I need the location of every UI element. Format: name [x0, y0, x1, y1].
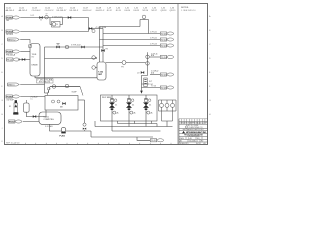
wire to OUT-5 — [150, 74, 160, 76]
package box PK-2 — [101, 95, 158, 121]
grid row letters left margin — [1, 15, 3, 143]
wire drop to L-R1 — [148, 20, 150, 34]
vessel T-102 — [97, 62, 106, 80]
off-page connector IN-7 — [6, 95, 19, 98]
wire bus b2 — [95, 126, 173, 128]
wire transfer line y62.5 — [106, 62, 146, 64]
svg-text:JK-12: JK-12 — [107, 10, 113, 12]
rotameter manifold — [159, 99, 177, 101]
svg-text:CD-106-X: CD-106-X — [32, 10, 42, 12]
wire L2 — [20, 31, 88, 33]
pump P-201 — [61, 127, 66, 132]
burner unit U2 — [126, 95, 136, 121]
svg-text:1. SEE DWG 10: 1. SEE DWG 10 — [181, 10, 196, 12]
label box on outlet line — [37, 79, 54, 83]
instrument PI-111 — [146, 62, 150, 66]
instrument FI-101 — [45, 15, 49, 19]
svg-text:2"-NG-1021: 2"-NG-1021 — [52, 16, 63, 18]
wire riser x84.5 — [84, 100, 86, 123]
wire CW supply into PK-1 — [20, 96, 45, 98]
svg-text:TO 23: TO 23 — [161, 45, 167, 47]
wire riser x147.5 — [147, 52, 149, 75]
svg-text:GH-111-X: GH-111-X — [96, 10, 105, 12]
svg-text:FW-201-A: FW-201-A — [6, 53, 15, 56]
svg-text:CD-107-X: CD-107-X — [45, 10, 55, 12]
off-page connector OUT-2 — [160, 38, 173, 41]
svg-text:VENT 12: VENT 12 — [8, 39, 16, 41]
wire link y28.5 — [89, 28, 104, 30]
svg-text:SUMP: SUMP — [72, 92, 78, 94]
svg-text:P-201: P-201 — [60, 136, 66, 138]
svg-text:TO 21: TO 21 — [161, 33, 167, 35]
wire L6 drain header — [20, 84, 44, 86]
wire header R1 — [103, 33, 160, 35]
svg-text:2"-CW-12: 2"-CW-12 — [151, 71, 158, 73]
svg-text:AB-105-X: AB-105-X — [19, 9, 28, 12]
svg-text:N2 SUP: N2 SUP — [6, 34, 14, 36]
burner unit U3 — [143, 95, 153, 121]
svg-text:2"-VT-11: 2"-VT-11 — [151, 53, 158, 55]
svg-text:NP-17: NP-17 — [152, 10, 159, 12]
wire vertical riser x44.5 — [44, 47, 46, 93]
instrument PI-104 — [142, 15, 146, 19]
wire bypass drops — [49, 18, 51, 25]
svg-text:G: G — [1, 100, 3, 102]
off-page connector OUT-5 — [160, 73, 173, 76]
instrument PI-102 — [92, 29, 95, 32]
filter F-201 — [14, 103, 18, 112]
wire riser to L2 — [88, 18, 90, 32]
revision ticks — [182, 119, 205, 124]
off-page connector IN-4 — [6, 50, 19, 53]
svg-text:EF-109-X: EF-109-X — [70, 10, 79, 12]
valve V103 — [89, 27, 92, 29]
svg-text:EF-108-XY: EF-108-XY — [57, 10, 68, 12]
svg-text:AB-104-X: AB-104-X — [6, 9, 15, 12]
off-page connector IN-2 — [6, 30, 19, 33]
svg-text:A1: A1 — [180, 139, 182, 142]
burner unit U1 — [109, 95, 119, 121]
wire L3 to vessel — [20, 39, 30, 41]
svg-text:TO 27: TO 27 — [151, 140, 157, 142]
svg-text:C-201: C-201 — [44, 116, 49, 118]
wire branch y84 — [142, 83, 150, 85]
svg-text:G: G — [209, 100, 211, 102]
svg-text:TO 22: TO 22 — [161, 39, 167, 41]
control valve CV-202 — [83, 123, 86, 126]
package box PK-1 — [45, 96, 78, 111]
valve cluster on riser — [141, 71, 144, 73]
svg-text:2"-FG-22: 2"-FG-22 — [150, 38, 157, 40]
svg-text:DRN 15: DRN 15 — [8, 84, 15, 86]
wire mid line y26.5 — [100, 26, 141, 28]
wire pump discharge — [66, 130, 91, 132]
svg-text:LM-14: LM-14 — [125, 10, 132, 12]
instrument FI-107 on line — [122, 61, 126, 65]
svg-text:J: J — [1, 128, 2, 130]
instrument LI-106 — [92, 66, 96, 70]
svg-text:FR 14: FR 14 — [7, 59, 12, 61]
wire header y58.5 — [45, 58, 98, 60]
svg-text:FROM 11: FROM 11 — [6, 31, 12, 33]
valve V101 — [39, 16, 42, 18]
wire inlet pill to compressor — [23, 121, 39, 123]
wire bus b2 drop left — [94, 121, 96, 127]
svg-text:TO 26: TO 26 — [161, 87, 167, 89]
pump symbol in H1 — [52, 23, 56, 27]
valve on vessel feed — [29, 45, 32, 48]
instrument PSV stem — [143, 18, 145, 21]
svg-text:JK-13: JK-13 — [116, 10, 122, 12]
svg-text:QR-18: QR-18 — [161, 10, 168, 12]
off-page connector OUT-6 — [160, 86, 173, 89]
instrument PI-110 — [146, 55, 150, 59]
wire L5 — [18, 59, 30, 61]
svg-text:SP: SP — [46, 14, 48, 16]
grid row letters right margin — [209, 15, 211, 116]
off-page connector OUT-1 — [160, 32, 173, 35]
svg-text:2"-FG-21: 2"-FG-21 — [150, 32, 157, 34]
vessel T-201 pot — [24, 103, 30, 112]
wire bus b1 — [118, 123, 158, 125]
valve wedge into package — [140, 91, 143, 94]
mitsubishi logo — [182, 131, 185, 133]
wire riser pipe B — [102, 29, 104, 63]
wire header R3 — [103, 45, 160, 47]
svg-text:TO 25: TO 25 — [161, 74, 167, 76]
valve V102 — [68, 16, 71, 18]
wire bus b4 — [91, 136, 153, 138]
valve V104 — [22, 58, 25, 60]
wire manifold drops — [161, 111, 163, 121]
off-page connector IN-6 flag — [8, 83, 20, 86]
control valve CV-101 — [56, 46, 59, 48]
svg-text:FROM 10: FROM 10 — [6, 17, 12, 19]
notes divider line — [177, 4, 179, 144]
wire to OUT-6 — [142, 87, 161, 89]
wire jog down — [142, 76, 148, 91]
svg-text:LM-15: LM-15 — [134, 10, 141, 12]
svg-text:GH-110-X: GH-110-X — [83, 10, 93, 12]
svg-text:NOTES:: NOTES: — [181, 7, 189, 9]
valve in PK-1 — [62, 102, 65, 104]
valve V-203 — [33, 115, 36, 117]
size cells row — [185, 137, 187, 140]
off-page connector IN-5 — [7, 58, 20, 61]
title block frame — [179, 119, 208, 145]
wire riser pipe A — [99, 40, 101, 63]
wire jog up — [139, 20, 141, 27]
svg-text:F1: F1 — [9, 106, 11, 108]
svg-text:R0: R0 — [201, 140, 203, 142]
svg-text:10-1043-01: 10-1043-01 — [189, 140, 198, 142]
svg-text:REF 10-2 P+ID: REF 10-2 P+ID — [6, 143, 20, 145]
compressor package C-201 — [39, 112, 61, 124]
svg-text:DRUM: DRUM — [32, 65, 38, 67]
header stream labels row — [6, 8, 177, 12]
grid column ticks bottom border — [15, 143, 171, 145]
instrument in PK-1 a — [52, 100, 55, 103]
svg-text:CW SUP: CW SUP — [6, 99, 14, 101]
number cells row — [187, 139, 189, 142]
svg-text:FROM 13: FROM 13 — [6, 51, 12, 53]
svg-text:TO 24: TO 24 — [161, 57, 167, 59]
instrument LG-202 — [65, 84, 69, 88]
instrument LI-105 — [92, 56, 96, 60]
svg-text:COMP PKG: COMP PKG — [44, 119, 55, 121]
border frame — [5, 4, 208, 145]
wire main feed L1 — [20, 17, 88, 19]
wire PK1 drop — [45, 110, 47, 117]
svg-text:2"-DR-1090-A1A: 2"-DR-1090-A1A — [37, 79, 53, 82]
instrument LG-201 — [52, 85, 56, 89]
svg-text:FROM 16: FROM 16 — [6, 96, 12, 98]
svg-text:1-021: 1-021 — [30, 15, 34, 17]
svg-text:FROM 17: FROM 17 — [9, 121, 15, 123]
wire to OUT-4 — [149, 56, 160, 58]
wire compressor drain to pump — [50, 124, 62, 131]
wire component line y47 — [45, 46, 104, 48]
wire to OUT-7 — [137, 137, 150, 140]
wire pot outlet — [26, 112, 46, 116]
valve V105 — [81, 46, 84, 48]
off-page connector IN-8 — [9, 120, 22, 123]
valve on riser B — [101, 49, 104, 51]
off-page connector OUT-7 — [150, 139, 163, 142]
off-page connector IN-1 — [6, 16, 19, 19]
svg-text:4"-VG-1050: 4"-VG-1050 — [96, 27, 107, 29]
off-page connector OUT-3 — [160, 44, 173, 47]
off-page connector IN-3 flag — [8, 38, 20, 41]
wire unit drops — [111, 121, 113, 131]
off-page connector OUT-4 — [160, 55, 173, 58]
svg-text:2"-FG-23: 2"-FG-23 — [150, 44, 157, 46]
wire b1 drop — [156, 124, 158, 127]
heater package box H1 — [52, 22, 61, 28]
svg-text:NP-16: NP-16 — [143, 10, 150, 12]
svg-text:3"-FW-1042: 3"-FW-1042 — [71, 45, 81, 47]
svg-text:0 ISSUE FOR APPROVAL AB CD EF: 0 ISSUE FOR APPROVAL AB CD EF — [179, 122, 207, 125]
svg-text:SH 1/1: SH 1/1 — [196, 143, 201, 145]
wire header R2 — [100, 39, 161, 41]
instrument TI-103 — [65, 45, 69, 49]
instrument in PK-1 b — [57, 100, 60, 103]
strainer on drop — [144, 78, 147, 87]
wire PK-1 to riser — [78, 99, 85, 101]
vessel T-101 — [30, 44, 40, 77]
sump hopper — [47, 87, 83, 96]
wire vessel T-101 outlet — [35, 76, 97, 78]
svg-text:TO 26: TO 26 — [151, 85, 156, 87]
svg-text:QR-19: QR-19 — [170, 10, 177, 12]
wire L4 — [20, 51, 30, 53]
svg-text:CLIENT ENG CO: CLIENT ENG CO — [188, 127, 203, 129]
